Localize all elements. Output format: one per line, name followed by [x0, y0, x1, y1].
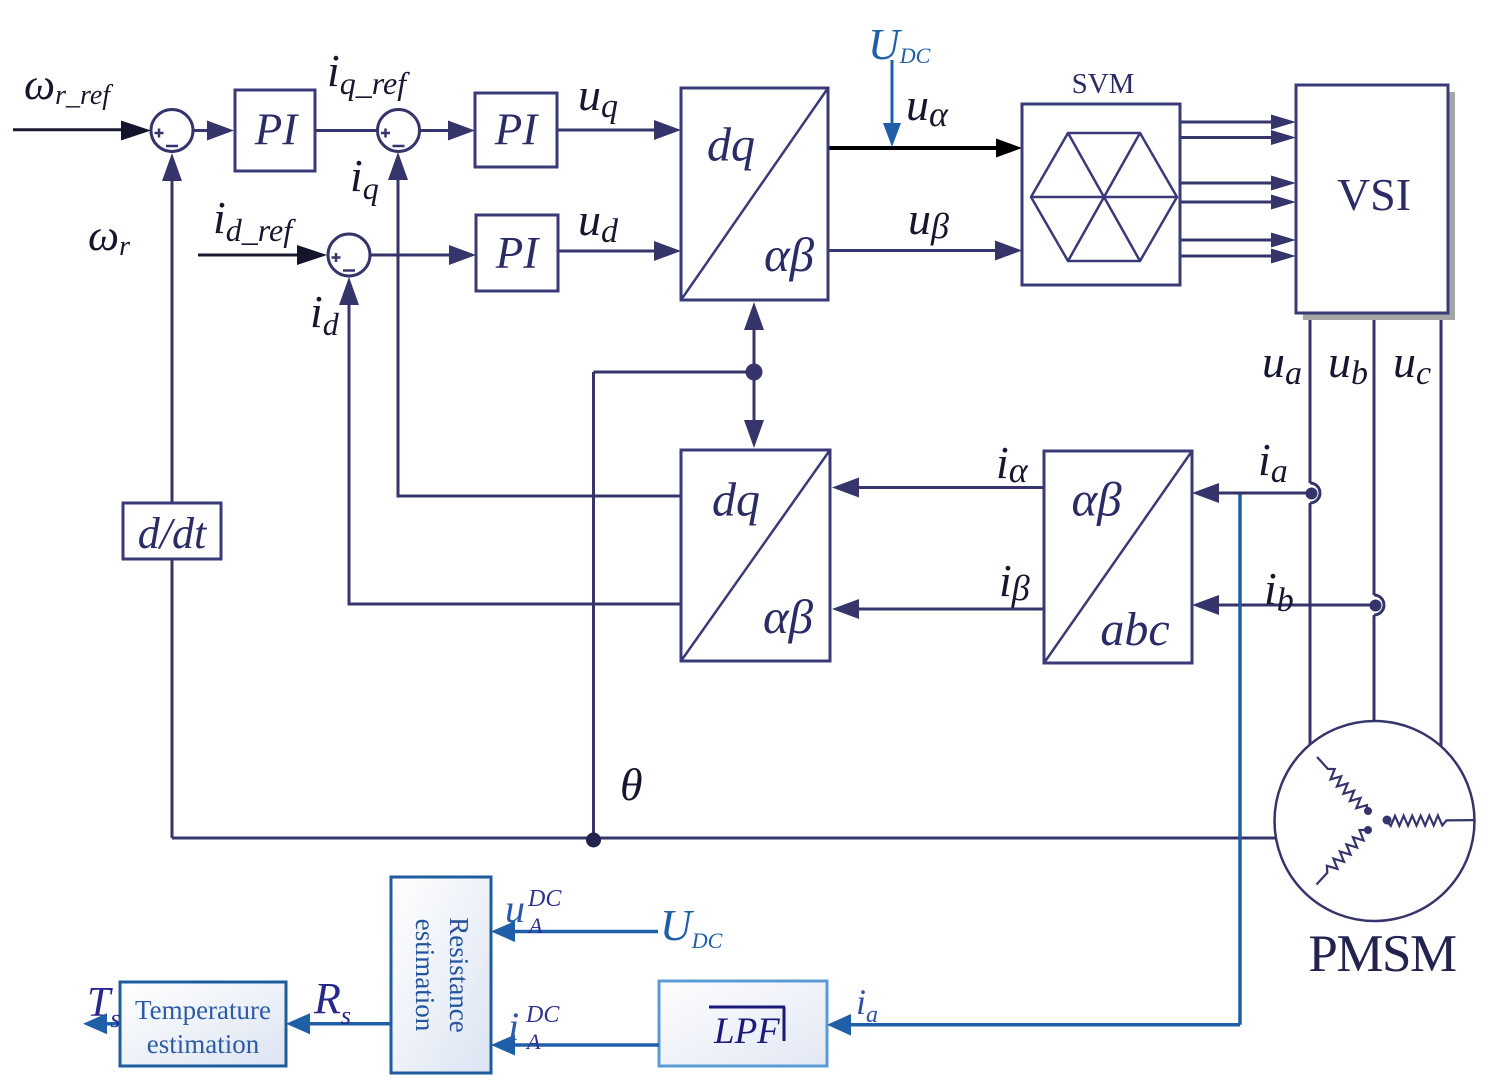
svg-text:iq: iq: [350, 150, 379, 206]
svg-text:iβ: iβ: [999, 555, 1030, 608]
svg-text:Rs: Rs: [313, 974, 351, 1030]
svg-text:PI: PI: [494, 105, 539, 155]
svg-text:uβ: uβ: [908, 193, 949, 246]
svg-text:Ts: Ts: [87, 980, 120, 1033]
svg-text:UDC: UDC: [868, 20, 931, 69]
svg-text:UDC: UDC: [660, 901, 723, 953]
svg-text:A: A: [525, 1029, 541, 1054]
svg-text:ub: ub: [1328, 336, 1368, 392]
svg-text:ud: ud: [578, 194, 619, 250]
svg-text:VSI: VSI: [1337, 169, 1411, 220]
svg-text:ia: ia: [856, 982, 878, 1028]
svg-text:i: i: [508, 1004, 519, 1049]
svg-text:PI: PI: [254, 105, 299, 155]
svg-text:Temperature: Temperature: [135, 995, 271, 1025]
svg-text:uc: uc: [1393, 336, 1431, 392]
svg-text:DC: DC: [525, 1002, 560, 1028]
svg-text:dq: dq: [707, 119, 755, 172]
svg-text:uα: uα: [906, 79, 949, 134]
svg-text:A: A: [527, 913, 543, 938]
svg-text:Resistance: Resistance: [444, 917, 474, 1032]
svg-text:LPF: LPF: [713, 1011, 780, 1052]
svg-text:PI: PI: [495, 228, 540, 278]
svg-text:αβ: αβ: [764, 227, 815, 282]
svg-text:u: u: [505, 886, 525, 931]
svg-text:uq: uq: [578, 69, 618, 125]
svg-text:DC: DC: [527, 886, 562, 912]
svg-text:dq: dq: [712, 474, 760, 527]
svg-text:ua: ua: [1262, 336, 1302, 392]
svg-text:estimation: estimation: [410, 919, 440, 1032]
svg-text:id: id: [310, 286, 340, 342]
svg-text:ia: ia: [1258, 434, 1288, 490]
svg-text:PMSM: PMSM: [1308, 925, 1456, 983]
svg-text:id_ref: id_ref: [213, 192, 296, 248]
svg-text:θ: θ: [620, 759, 643, 810]
svg-text:abc: abc: [1100, 603, 1169, 656]
svg-text:SVM: SVM: [1072, 68, 1135, 100]
svg-text:ωr: ωr: [88, 211, 130, 262]
svg-text:αβ: αβ: [1071, 472, 1122, 527]
svg-text:ib: ib: [1264, 563, 1294, 619]
svg-text:iα: iα: [996, 437, 1029, 490]
svg-text:d/dt: d/dt: [138, 509, 208, 558]
svg-text:ωr_ref: ωr_ref: [24, 60, 113, 111]
svg-text:iq_ref: iq_ref: [327, 45, 410, 101]
svg-text:αβ: αβ: [763, 589, 814, 644]
svg-text:estimation: estimation: [147, 1029, 260, 1059]
